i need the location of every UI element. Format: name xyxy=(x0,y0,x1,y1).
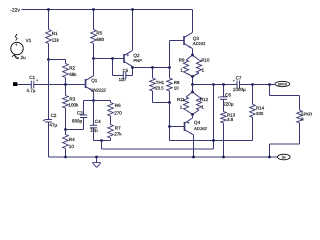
svg-text:R11: R11 xyxy=(177,97,185,102)
svg-text:11n: 11n xyxy=(119,77,127,82)
svg-text:R5: R5 xyxy=(96,31,102,36)
svg-text:C6: C6 xyxy=(225,92,231,97)
svg-text:AD162: AD162 xyxy=(193,126,207,131)
svg-text:R10: R10 xyxy=(201,58,210,63)
svg-text:C2: C2 xyxy=(51,113,57,118)
svg-text:270: 270 xyxy=(114,110,122,115)
svg-text:+: + xyxy=(218,95,220,99)
svg-text:R8: R8 xyxy=(174,80,180,85)
svg-text:11k: 11k xyxy=(52,38,60,43)
svg-text:220µ: 220µ xyxy=(223,102,234,107)
svg-text:R3: R3 xyxy=(69,96,75,101)
svg-text:2u: 2u xyxy=(21,55,27,60)
svg-text:R2: R2 xyxy=(69,66,75,71)
svg-text:330: 330 xyxy=(256,111,264,116)
svg-text:R12: R12 xyxy=(200,97,209,102)
svg-text:68k: 68k xyxy=(69,72,77,77)
svg-text:SPKR: SPKR xyxy=(278,83,288,87)
svg-text:V1: V1 xyxy=(26,38,32,43)
svg-text:10: 10 xyxy=(174,86,179,91)
svg-text:47µ: 47µ xyxy=(49,122,57,127)
svg-text:27k: 27k xyxy=(114,132,122,137)
svg-text:AD161: AD161 xyxy=(192,41,206,46)
svg-text:C1: C1 xyxy=(29,75,35,80)
svg-text:R1: R1 xyxy=(52,31,58,36)
svg-text:23.5: 23.5 xyxy=(155,86,164,91)
svg-text:C3: C3 xyxy=(77,111,83,116)
svg-text:15µ: 15µ xyxy=(90,128,98,133)
svg-text:0v: 0v xyxy=(282,156,286,160)
svg-text:2N2222: 2N2222 xyxy=(90,87,106,92)
svg-text:Q4: Q4 xyxy=(194,120,201,125)
svg-text:TH1: TH1 xyxy=(156,80,165,85)
svg-text:R4: R4 xyxy=(69,137,75,142)
svg-text:C5: C5 xyxy=(123,68,129,73)
svg-text:4.7µ: 4.7µ xyxy=(26,88,35,93)
svg-text:1000µ: 1000µ xyxy=(233,87,246,92)
svg-text:-22v: -22v xyxy=(10,7,20,13)
svg-text:Q1: Q1 xyxy=(91,78,98,83)
svg-text:3.8: 3.8 xyxy=(227,117,234,122)
svg-text:R6: R6 xyxy=(115,103,121,108)
svg-text:R14: R14 xyxy=(256,106,265,111)
svg-text:C4: C4 xyxy=(95,119,101,124)
svg-text:R7: R7 xyxy=(115,125,121,130)
svg-text:R9: R9 xyxy=(179,58,185,63)
svg-text:+: + xyxy=(233,79,235,83)
svg-text:680p: 680p xyxy=(72,119,83,124)
svg-text:100k: 100k xyxy=(68,102,79,107)
svg-text:10: 10 xyxy=(69,144,75,149)
svg-text:+: + xyxy=(36,79,38,83)
svg-text:PNP: PNP xyxy=(133,58,142,63)
svg-text:680: 680 xyxy=(96,37,104,42)
svg-text:C7: C7 xyxy=(236,75,242,80)
